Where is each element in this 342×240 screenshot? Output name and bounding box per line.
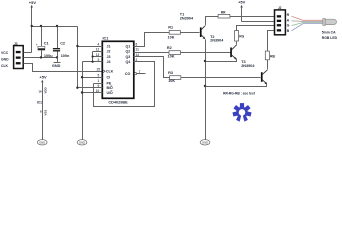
svg-text:10K: 10K xyxy=(168,55,175,59)
pin label U/D (pin 10) xyxy=(96,89,113,95)
node junction A-pin4 xyxy=(76,45,78,47)
capacitor C2 xyxy=(53,27,70,59)
IC IC1 CD4029BE body xyxy=(102,37,134,99)
svg-text:Q2: Q2 xyxy=(126,50,131,54)
svg-text:100u: 100u xyxy=(44,54,53,58)
svg-text:GND: GND xyxy=(79,140,85,144)
svg-text:CLK: CLK xyxy=(1,64,9,68)
svg-text:GND: GND xyxy=(202,140,208,144)
wire Q1 to R1 xyxy=(134,33,170,47)
wire Q3 to R3 xyxy=(134,57,170,78)
svg-text:+5V: +5V xyxy=(29,0,37,5)
svg-text:GND: GND xyxy=(52,64,61,68)
pin label PE (pin 1) xyxy=(98,79,112,85)
svg-text:CI: CI xyxy=(107,76,111,80)
wire T1 collector to RR xyxy=(206,17,219,26)
pin label CLK (pin 15) with clock wedge xyxy=(96,68,113,74)
pin label J3 (pin 13) xyxy=(96,53,140,59)
svg-text:CLK: CLK xyxy=(106,70,114,74)
wire Q4 to PE feedback loop xyxy=(94,62,155,107)
svg-text:J4: J4 xyxy=(107,60,111,64)
svg-text:RR: RR xyxy=(221,11,226,15)
svg-text:12: 12 xyxy=(96,48,100,52)
pin label J2 (pin 12) xyxy=(96,48,139,54)
svg-text:PE: PE xyxy=(107,81,112,85)
svg-text:VSS: VSS xyxy=(44,110,48,116)
wire pin 9 xyxy=(78,87,103,89)
svg-text:Q1: Q1 xyxy=(126,45,131,49)
node junction C1-GND bus xyxy=(40,56,42,58)
svg-text:R: R xyxy=(287,13,290,17)
power +5V top-left xyxy=(29,0,37,27)
svg-text:+5V: +5V xyxy=(238,0,246,5)
wire R3 to T3 base xyxy=(181,77,261,79)
wire pin 3 xyxy=(83,61,103,63)
svg-text:GND: GND xyxy=(39,140,45,144)
svg-text:15: 15 xyxy=(96,68,100,72)
wire RR to J2 pin R xyxy=(230,16,275,18)
svg-text:B/D: B/D xyxy=(107,86,114,90)
wire RB to J2 pin B xyxy=(268,31,275,52)
svg-text:VDD: VDD xyxy=(44,87,48,93)
svg-text:RG: RG xyxy=(239,34,244,38)
svg-text:B: B xyxy=(287,29,290,33)
wire +5V to jam pin 4 (vertical A) xyxy=(77,27,79,88)
svg-text:6: 6 xyxy=(136,42,138,46)
svg-text:A: A xyxy=(287,19,290,23)
wire J1 GND bus xyxy=(24,57,58,59)
svg-text:U/D: U/D xyxy=(107,91,114,95)
svg-text:4: 4 xyxy=(98,42,100,46)
ground symbol under jam net xyxy=(77,140,87,145)
pin label CO (pin 7) with bubble xyxy=(125,70,146,76)
transistor T2 2N3904 xyxy=(210,35,237,60)
connector J2 xyxy=(275,6,286,35)
pin label J4 (pin 3) xyxy=(98,58,138,64)
wire LED anode lead xyxy=(292,20,324,23)
svg-text:2N3904: 2N3904 xyxy=(210,39,224,43)
transistor T3 2N3904 xyxy=(241,60,267,84)
wire LED blue lead xyxy=(292,24,324,31)
svg-text:J3: J3 xyxy=(107,55,111,59)
pin label CI (pin 5) xyxy=(98,74,111,80)
svg-text:+: + xyxy=(36,43,38,47)
svg-text:11: 11 xyxy=(136,48,140,52)
wire pin 12 xyxy=(93,51,103,53)
gear logo xyxy=(232,103,251,122)
svg-text:RR-RG-RB : see text: RR-RG-RB : see text xyxy=(223,91,256,95)
svg-text:J1: J1 xyxy=(107,45,111,49)
wire +5V to J2 pin A xyxy=(242,21,275,23)
resistor RR xyxy=(218,11,230,18)
wire T3 collector to RB xyxy=(267,60,269,70)
connector J1 xyxy=(14,42,24,68)
svg-text:IC1: IC1 xyxy=(103,37,109,41)
wire Q2 to R2 xyxy=(134,52,170,54)
resistor R2 10K xyxy=(167,46,181,59)
LED D1 5mm body xyxy=(323,19,337,26)
svg-text:VCC: VCC xyxy=(1,51,9,55)
resistor RG xyxy=(235,31,245,41)
svg-text:5: 5 xyxy=(98,74,100,78)
wire R2 to T2 base xyxy=(181,52,231,54)
ground marker GND net xyxy=(52,58,61,68)
wire ground vertical B xyxy=(82,62,84,140)
svg-text:2N3904: 2N3904 xyxy=(180,16,194,20)
wire pin 13 xyxy=(93,56,103,58)
wire +5V rail drop to J1 VCC xyxy=(31,27,33,53)
node junction B-pin10 xyxy=(81,91,83,93)
svg-text:R1: R1 xyxy=(168,25,173,29)
wire T2 collector to RG xyxy=(236,42,238,45)
power +5V for LED common anode xyxy=(238,0,246,21)
svg-text:Q4: Q4 xyxy=(126,60,131,64)
svg-text:100n: 100n xyxy=(61,54,70,58)
svg-text:IC1: IC1 xyxy=(37,101,42,105)
wire jam tie vertical xyxy=(92,52,94,62)
node junction rail-VCC xyxy=(31,25,33,27)
node junction jam-pin3 xyxy=(92,61,94,63)
wire +5V rail xyxy=(32,26,78,28)
resistor R1 10K xyxy=(168,25,181,39)
svg-text:CD4029BE: CD4029BE xyxy=(108,100,128,104)
node junction emitter bus T2 xyxy=(204,60,206,62)
transistor T1 2N3904 xyxy=(180,12,206,39)
wire R1 to T1 base xyxy=(181,32,200,34)
pin label B/D (pin 9) xyxy=(98,84,114,90)
node junction emitter bus T3 xyxy=(204,85,206,87)
ground symbol emitters xyxy=(200,140,210,145)
svg-text:R3: R3 xyxy=(168,71,173,75)
node junction A-pin9 xyxy=(76,87,78,89)
svg-text:1: 1 xyxy=(98,79,100,83)
svg-text:16: 16 xyxy=(38,89,42,93)
IC1 VDD power stub xyxy=(37,75,48,140)
svg-text:RGB LED: RGB LED xyxy=(322,36,338,40)
resistor R3 10K xyxy=(168,71,181,83)
node junction rail-C2 xyxy=(56,25,58,27)
wire J1 CLK to IC1 pin15 xyxy=(24,64,103,72)
node junction C2-GND bus xyxy=(56,56,58,58)
ground symbol under IC1 VSS xyxy=(37,140,47,145)
node junction B-pin5 xyxy=(81,76,83,78)
wire pin 1 (PE) xyxy=(94,83,103,85)
svg-text:J2: J2 xyxy=(107,50,111,54)
svg-text:GND: GND xyxy=(1,58,9,62)
wire LED red lead xyxy=(292,16,324,20)
node junction rail-C1 xyxy=(40,25,42,27)
svg-text:5mm CA: 5mm CA xyxy=(322,30,336,34)
wire pin 10 xyxy=(83,92,103,94)
svg-text:10K: 10K xyxy=(168,35,175,39)
wire RG to J2 pin G xyxy=(237,26,275,31)
wire pin 4 xyxy=(78,46,103,48)
svg-text:10K: 10K xyxy=(168,79,175,83)
svg-text:+5V: +5V xyxy=(39,75,47,80)
resistor RB xyxy=(265,51,275,60)
wire T2 emitter to bus xyxy=(206,60,237,62)
wire J1 VCC to +5V xyxy=(24,52,32,54)
capacitor C1 xyxy=(36,27,53,59)
svg-text:C1: C1 xyxy=(44,42,49,46)
wire LED green lead xyxy=(292,23,324,26)
svg-text:Q3: Q3 xyxy=(126,55,131,59)
svg-text:2N3904: 2N3904 xyxy=(241,64,255,68)
pin label J1 (pin 4) xyxy=(98,42,138,48)
wire pin 5 xyxy=(83,77,103,79)
svg-text:C2: C2 xyxy=(60,42,65,46)
wire T1 emitter to ground rail xyxy=(205,40,207,140)
svg-text:G: G xyxy=(287,24,290,28)
wire T3 emitter to bus xyxy=(206,85,267,87)
svg-text:CO: CO xyxy=(125,72,131,76)
svg-text:R2: R2 xyxy=(167,46,172,50)
node junction jam-pin13 xyxy=(92,55,94,57)
svg-text:RB: RB xyxy=(270,55,275,59)
